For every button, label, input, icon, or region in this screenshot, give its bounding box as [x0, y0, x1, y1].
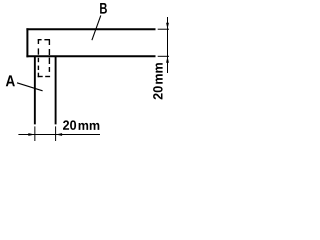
bar B bottom edge — [26, 55, 155, 57]
bottom dimension right arrowhead (pointing left) — [56, 133, 63, 136]
bottom dimension left arrowhead (pointing right) — [28, 133, 35, 136]
leader line for label A — [17, 83, 43, 91]
bar B left edge — [26, 28, 28, 57]
right dimension: extension line top — [158, 28, 169, 30]
top-left corner dash — [38, 39, 42, 41]
leader line for label B — [92, 15, 101, 40]
bar A (vertical bar) left edge — [34, 56, 36, 124]
bar A right edge — [55, 56, 57, 124]
label A — [6, 75, 15, 86]
label B — [100, 3, 107, 14]
top-right corner dash — [44, 39, 50, 41]
hidden pin (dashed rectangle) — [38, 40, 50, 77]
bottom-right corner dash — [45, 76, 50, 78]
bottom dimension line — [18, 134, 100, 136]
right dimension value label "mm" (rotated) — [156, 63, 163, 84]
bottom dimension value label "mm" — [79, 123, 100, 130]
right dimension: extension line bottom — [158, 55, 169, 57]
right dimension value label "20" (rotated) — [153, 63, 163, 99]
right dimension top arrowhead (pointing down) — [166, 23, 169, 30]
bottom dimension: extension line right — [55, 126, 57, 141]
bar B (horizontal bar) top edge — [26, 28, 155, 30]
left edge dashes — [37, 48, 39, 54]
bottom dimension: extension line left — [34, 126, 36, 141]
right dimension line — [167, 17, 169, 73]
bottom dimension value label "20" — [63, 120, 76, 129]
right dimension bottom arrowhead (pointing up) — [166, 56, 169, 63]
right edge dashes — [48, 49, 50, 55]
bottom-left corner dash — [37, 73, 39, 78]
